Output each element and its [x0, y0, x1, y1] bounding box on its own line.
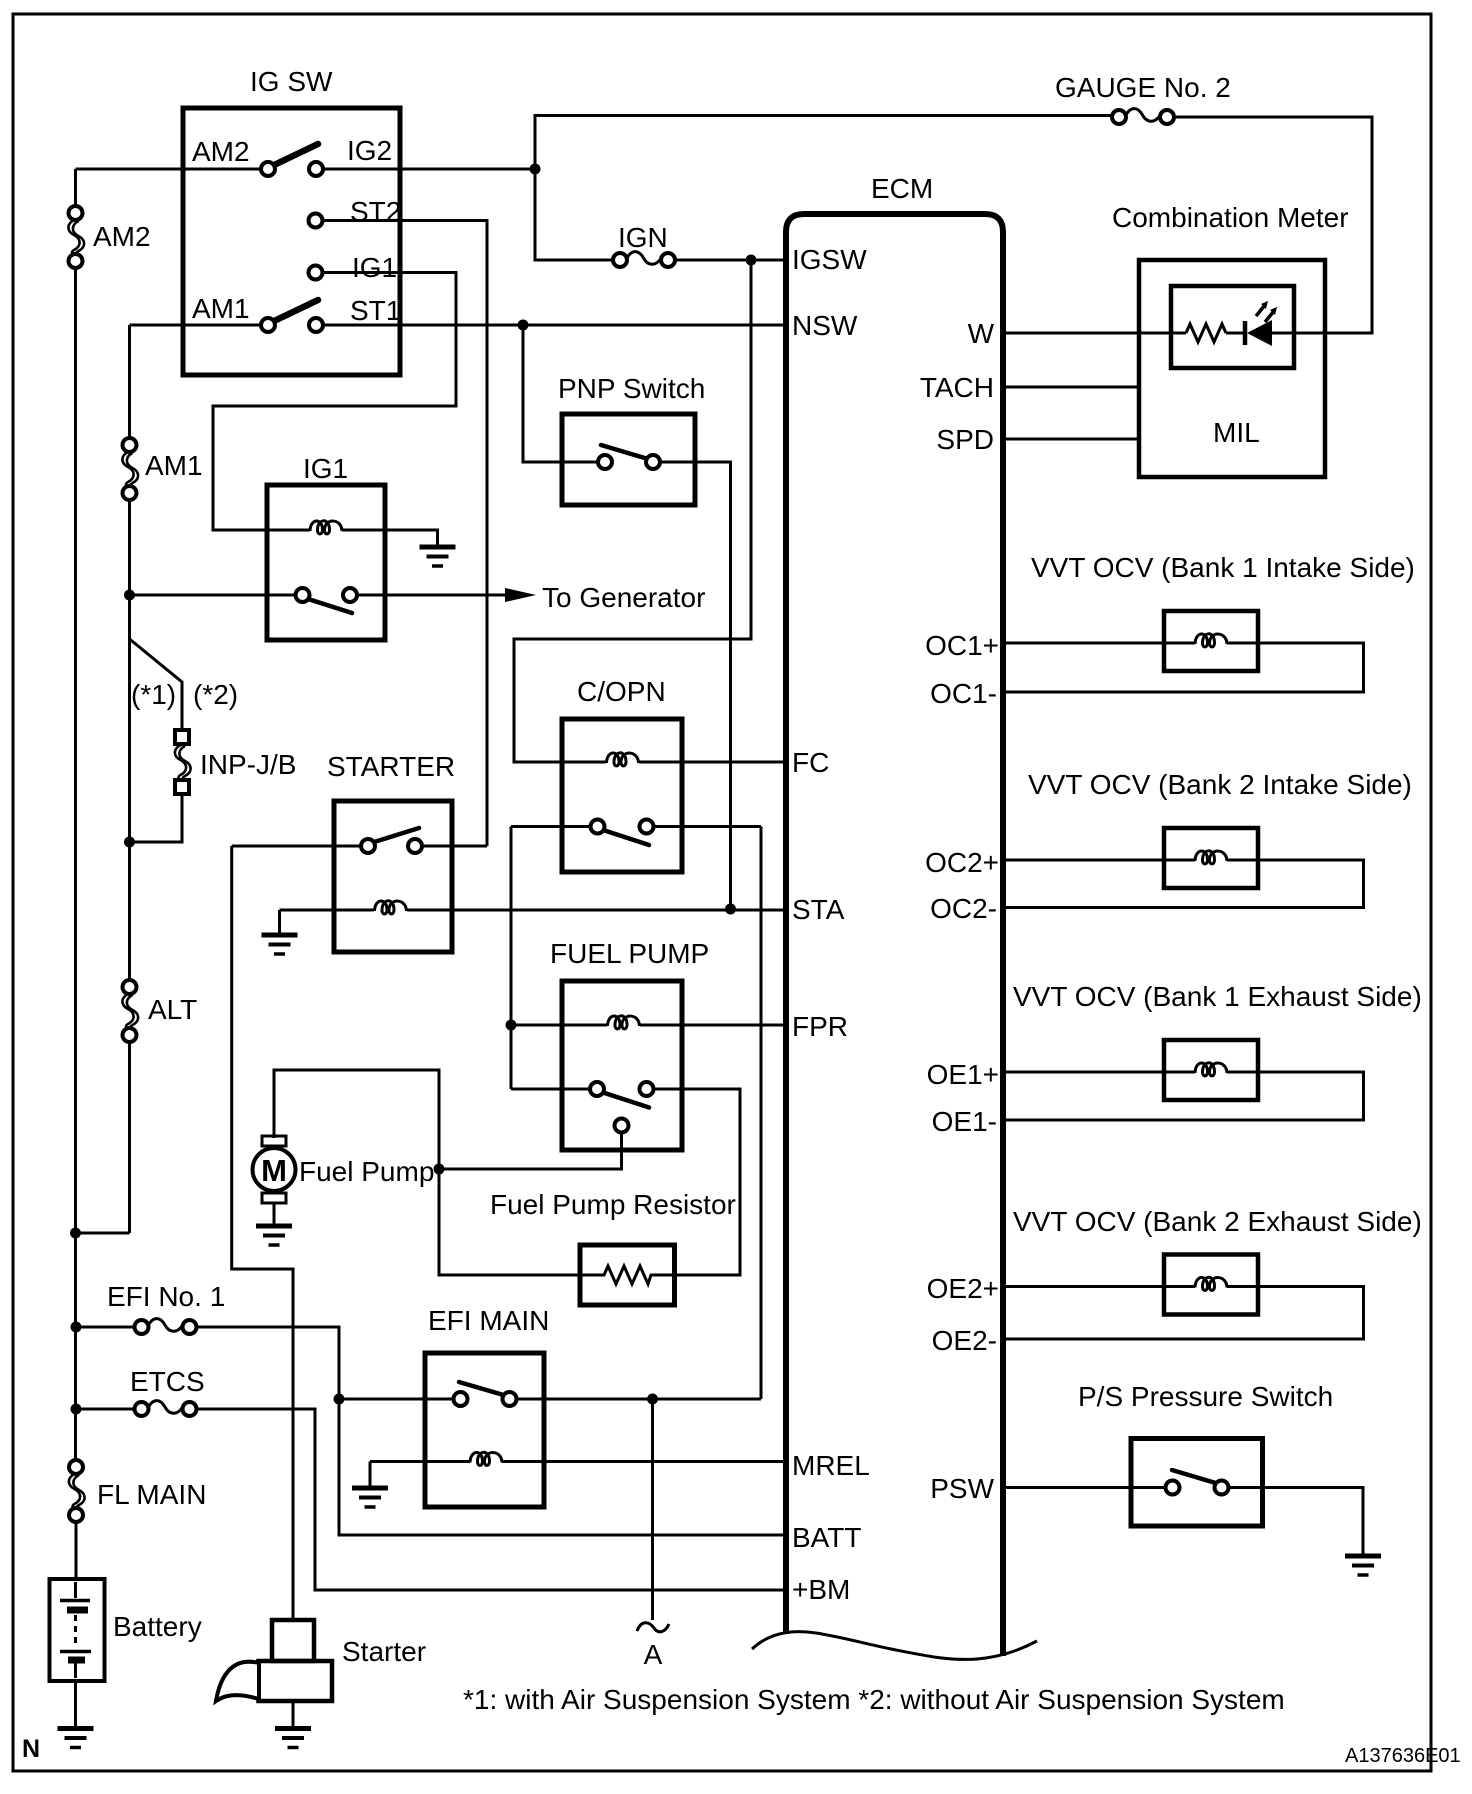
P/S switch blade [1172, 1470, 1219, 1484]
svg-text:AM1: AM1 [192, 293, 250, 324]
svg-text:VVT OCV (Bank 2 Exhaust Side): VVT OCV (Bank 2 Exhaust Side) [1013, 1206, 1422, 1237]
svg-text:W: W [968, 318, 995, 349]
relay FUEL PUMP coil leads [511, 1024, 786, 1027]
svg-text:SPD: SPD [936, 424, 994, 455]
wire OC2 loop [1003, 860, 1364, 908]
ground P/S switch [1345, 1556, 1381, 1575]
solenoid VVT OCV B2 exhaust coil [1195, 1277, 1227, 1290]
svg-text:AM2: AM2 [192, 136, 250, 167]
wire ST1 to ECM NSW [323, 324, 786, 327]
wire FUEL PUMP switch left [511, 1088, 590, 1091]
wire AM1 bus middle [128, 500, 131, 981]
solenoid VVT OCV B2 intake leads [1164, 859, 1258, 862]
node IGSW branch [746, 255, 757, 266]
wire TACH to meter [1003, 386, 1139, 389]
wire IG2 node down to IGN [535, 169, 613, 260]
ECM break wavy line [752, 1632, 1037, 1660]
svg-text:PSW: PSW [930, 1473, 994, 1504]
solenoid VVT OCV B1 exhaust leads [1164, 1071, 1258, 1074]
motor Fuel Pump body [253, 1148, 296, 1191]
Fuel Pump Resistor box [580, 1245, 675, 1305]
wire STARTER switch left [232, 845, 361, 848]
switch AM2-IG2 contacts [261, 162, 275, 176]
wire EFI No.1 bus tap [76, 1326, 135, 1329]
svg-text:N: N [22, 1735, 40, 1763]
PNP Switch box [562, 414, 695, 505]
svg-text:OC1-: OC1- [930, 678, 997, 709]
fuse IGN [613, 252, 675, 267]
relay FUEL PUMP switch blade [600, 1092, 649, 1108]
svg-text:Combination Meter: Combination Meter [1112, 202, 1349, 233]
relay C/OPN box [562, 719, 682, 872]
wire resistor to LED [1226, 332, 1245, 335]
wire AM2 pin to left bus [76, 168, 262, 171]
relay FUEL PUMP lower contact [615, 1119, 629, 1133]
relay IG1 coil [310, 521, 342, 534]
relay C/OPN switch contacts [591, 820, 605, 834]
svg-text:Fuel Pump: Fuel Pump [299, 1156, 434, 1187]
wire ETCS to +BM [196, 1409, 786, 1590]
svg-text:IGSW: IGSW [792, 244, 867, 275]
relay STARTER box [334, 801, 452, 952]
IG SW box [183, 108, 400, 375]
svg-text:A: A [644, 1639, 663, 1670]
svg-text:AM2: AM2 [93, 221, 151, 252]
svg-text:GAUGE No. 2: GAUGE No. 2 [1055, 72, 1231, 103]
svg-text:OE1-: OE1- [932, 1106, 997, 1137]
wire AM1 pin to bus [130, 324, 262, 327]
svg-text:OE1+: OE1+ [927, 1059, 999, 1090]
fuse ETCS [135, 1401, 197, 1416]
svg-text:ETCS: ETCS [130, 1366, 205, 1397]
wire fuel pump motor ground stub [273, 1203, 276, 1224]
wire PSW [1003, 1486, 1131, 1489]
wire OE1+ [1003, 1071, 1164, 1074]
wire STARTER coil to ECM STA [407, 909, 786, 912]
relay C/OPN switch blade [600, 829, 649, 845]
wire SPD to meter [1003, 438, 1139, 441]
svg-text:To Generator: To Generator [542, 582, 705, 613]
svg-text:Battery: Battery [113, 1611, 202, 1642]
relay EFI MAIN coil [470, 1452, 502, 1465]
battery box [50, 1579, 105, 1681]
fuse INP-J/B (fusible link) [175, 730, 191, 794]
wire diagonal to INP-J/B [130, 639, 183, 730]
solenoid VVT OCV B1 exhaust coil [1195, 1063, 1227, 1076]
ground IG1 coil [420, 547, 456, 566]
node IG2/gauge [530, 164, 541, 175]
wire EFI MAIN switch right [517, 1398, 762, 1401]
svg-text:IG2: IG2 [347, 135, 392, 166]
svg-text:Fuel Pump Resistor: Fuel Pump Resistor [490, 1189, 736, 1220]
svg-text:IG SW: IG SW [250, 66, 333, 97]
svg-text:VVT OCV (Bank 2 Intake Side): VVT OCV (Bank 2 Intake Side) [1028, 769, 1412, 800]
PNP switch contacts [598, 455, 612, 469]
relay STARTER coil [375, 901, 407, 914]
switch AM1-ST1 contacts [261, 318, 275, 332]
svg-text:Starter: Starter [342, 1636, 426, 1667]
wire gauge riser [535, 116, 1111, 171]
wire IG2 to gauge node [323, 168, 535, 171]
relay C/OPN coil [607, 753, 639, 766]
fuse AM2 [68, 206, 84, 268]
svg-text:FC: FC [792, 747, 829, 778]
wire battery to ground [74, 1681, 77, 1726]
PNP switch blade [601, 445, 648, 459]
wire W to meter [1003, 332, 1139, 335]
node STA junction [725, 904, 736, 915]
node FUEL PUMP coil junction [506, 1020, 517, 1031]
wire LED out [1272, 332, 1325, 335]
wire OE2 loop [1003, 1287, 1364, 1340]
LED MIL [1245, 301, 1277, 346]
wire ST2 to starter column [323, 221, 488, 847]
svg-text:OE2+: OE2+ [927, 1273, 999, 1304]
wire STARTER coil left [280, 909, 375, 912]
svg-text:STARTER: STARTER [327, 751, 455, 782]
svg-text:INP-J/B: INP-J/B [200, 749, 296, 780]
relay IG1 box [267, 485, 385, 640]
svg-text:(*1): (*1) [131, 679, 176, 710]
wire EFI MAIN coil left [370, 1460, 470, 1463]
wire fuel pump resistor feed [439, 1169, 580, 1275]
node A branch [647, 1394, 658, 1405]
wire AM1 bus upper [128, 325, 131, 438]
relay STARTER switch blade [371, 828, 419, 843]
wire EFI MAIN ground stub [369, 1462, 372, 1487]
svg-text:STA: STA [792, 894, 845, 925]
arrow To Generator [505, 588, 536, 602]
wire AM1 bus lower [128, 1042, 131, 1233]
node NSW/PNP branch [518, 320, 529, 331]
svg-text:EFI No. 1: EFI No. 1 [107, 1281, 225, 1312]
wire C/OPN switch right [654, 825, 762, 828]
wire gauge to meter [1176, 117, 1372, 333]
fuse ALT (fusible link) [122, 980, 138, 1042]
fuse FL MAIN (fusible link) [69, 1460, 85, 1522]
node EFI MAIN switch left [334, 1394, 345, 1405]
wire bus join at bottom [76, 1232, 130, 1235]
svg-text:A137636E01: A137636E01 [1345, 1745, 1461, 1767]
solenoid VVT OCV B1 exhaust box [1164, 1040, 1258, 1100]
relay FUEL PUMP coil [608, 1016, 640, 1029]
relay EFI MAIN switch blade [459, 1382, 507, 1396]
wire FUEL PUMP lower contact down [439, 1133, 622, 1170]
wire EFI No.1 to BATT [196, 1327, 786, 1535]
wire OC1+ [1003, 642, 1164, 645]
svg-text:IG1: IG1 [303, 453, 348, 484]
ground EFI MAIN coil [352, 1488, 388, 1507]
svg-text:OC2-: OC2- [930, 893, 997, 924]
solenoid VVT OCV B2 exhaust box [1164, 1255, 1258, 1315]
wire left bus upper [74, 169, 77, 206]
wire IGSW branch down to C/OPN feed [514, 260, 751, 762]
svg-text:FUEL PUMP: FUEL PUMP [550, 938, 709, 969]
switch AM1-ST1 blade [272, 300, 318, 322]
wire OE2+ [1003, 1285, 1164, 1288]
motor Fuel Pump terminals [262, 1136, 286, 1146]
ground fuel pump motor [256, 1226, 292, 1245]
IG SW contact IG1 [309, 266, 323, 280]
wire to generator arrow [357, 594, 506, 597]
wire P/S to ground [1263, 1488, 1364, 1555]
P/S switch wire [1131, 1486, 1263, 1489]
svg-text:FL MAIN: FL MAIN [97, 1479, 206, 1510]
wire left bus main [74, 269, 77, 1460]
IG SW contact ST2 [309, 214, 323, 228]
wire C/OPN left column down [510, 827, 513, 1090]
wire NSW branch to PNP switch [523, 325, 562, 462]
wire INP-J/B bottom to bus [130, 794, 183, 842]
relay STARTER switch contacts [361, 839, 375, 853]
MIL box [1171, 286, 1294, 368]
svg-text:FPR: FPR [792, 1011, 848, 1042]
resistor element [580, 1266, 675, 1284]
solenoid VVT OCV B2 intake coil [1195, 851, 1227, 864]
wire FUEL PUMP switch right loop to resistor [654, 1089, 741, 1275]
wire IG1 pin feed [213, 273, 456, 531]
P/S switch contacts [1166, 1481, 1180, 1495]
switch AM2-IG2 blade [272, 144, 318, 166]
wire IGN to ECM IGSW [675, 259, 786, 262]
wire ETCS bus tap [76, 1408, 135, 1411]
svg-text:MREL: MREL [792, 1450, 870, 1481]
relay EFI MAIN box [425, 1353, 544, 1507]
ground starter [275, 1729, 311, 1748]
resistor MIL [1186, 324, 1226, 342]
wire node A column [651, 1399, 654, 1620]
node ETCS tap [71, 1404, 82, 1415]
relay EFI MAIN switch contacts [454, 1392, 468, 1406]
ECM body [786, 214, 1003, 1656]
relay C/OPN coil leads [562, 761, 786, 764]
svg-text:+BM: +BM [792, 1574, 850, 1605]
svg-text:TACH: TACH [920, 372, 994, 403]
solenoid VVT OCV B1 intake coil [1195, 634, 1227, 647]
svg-text:P/S Pressure Switch: P/S Pressure Switch [1078, 1381, 1333, 1412]
wire PNP to STA column [695, 462, 731, 909]
fuse AM1 [122, 438, 138, 500]
node EFI No.1 tap [71, 1322, 82, 1333]
svg-text:*1: with Air Suspension System: *1: with Air Suspension System *2: witho… [463, 1684, 1285, 1715]
svg-text:MIL: MIL [1213, 417, 1260, 448]
wire EFI MAIN switch left [339, 1398, 454, 1401]
wire EFI MAIN coil to MREL [502, 1460, 786, 1463]
fuse GAUGE No. 2 [1112, 109, 1174, 124]
wire starter to ground [292, 1701, 295, 1726]
node fuel pump branch [434, 1164, 445, 1175]
wire fuel pump top loop [274, 1070, 439, 1169]
wire FL MAIN to battery [75, 1522, 78, 1579]
svg-text:BATT: BATT [792, 1522, 861, 1553]
Combination Meter box [1139, 260, 1325, 477]
starter motor symbol [216, 1620, 332, 1701]
node A break symbol [637, 1623, 669, 1632]
wire C/OPN right column down [760, 827, 763, 1400]
relay FUEL PUMP switch contacts [590, 1082, 604, 1096]
P/S Pressure Switch box [1131, 1439, 1263, 1527]
svg-text:EFI MAIN: EFI MAIN [428, 1305, 549, 1336]
ground STARTER coil [262, 935, 298, 954]
svg-text:ECM: ECM [871, 173, 933, 204]
wire STARTER switch right to ST2 column [422, 845, 487, 848]
node bus join [70, 1228, 81, 1239]
svg-text:ST2: ST2 [350, 196, 401, 227]
svg-text:VVT OCV (Bank 1 Intake Side): VVT OCV (Bank 1 Intake Side) [1031, 552, 1415, 583]
relay FUEL PUMP box [562, 981, 682, 1150]
relay IG1 switch blade [305, 598, 352, 613]
node INP-J/B rejoin [124, 837, 135, 848]
solenoid VVT OCV B1 intake box [1164, 611, 1258, 671]
wire OE1 loop [1003, 1072, 1364, 1120]
fuse EFI No. 1 [135, 1319, 197, 1334]
svg-text:C/OPN: C/OPN [577, 676, 666, 707]
wire STARTER coil ground stub [278, 910, 281, 933]
svg-text:OC2+: OC2+ [925, 847, 999, 878]
ground battery [58, 1729, 94, 1748]
relay IG1 coil lead [267, 529, 310, 532]
PNP switch wire [562, 461, 695, 464]
wire starter feed down [232, 846, 293, 1620]
svg-text:ALT: ALT [148, 994, 197, 1025]
wire C/OPN switch left [511, 825, 591, 828]
relay IG1 coil lead right [342, 530, 438, 545]
relay IG1 switch contacts [296, 588, 310, 602]
svg-text:AM1: AM1 [145, 450, 203, 481]
svg-text:M: M [261, 1153, 287, 1188]
svg-text:IG1: IG1 [352, 252, 397, 283]
svg-text:NSW: NSW [792, 310, 858, 341]
solenoid VVT OCV B2 exhaust leads [1164, 1285, 1258, 1288]
node IG1 switch junction [124, 590, 135, 601]
svg-text:PNP Switch: PNP Switch [558, 373, 705, 404]
svg-text:OC1+: OC1+ [925, 630, 999, 661]
solenoid VVT OCV B2 intake box [1164, 828, 1258, 888]
solenoid VVT OCV B1 intake leads [1164, 642, 1258, 645]
svg-text:OE2-: OE2- [932, 1325, 997, 1356]
svg-text:(*2): (*2) [193, 679, 238, 710]
battery plates [60, 1582, 91, 1678]
svg-text:ST1: ST1 [350, 295, 401, 326]
wire OC2+ [1003, 859, 1164, 862]
svg-text:IGN: IGN [618, 222, 668, 253]
svg-text:VVT OCV (Bank 1 Exhaust Side): VVT OCV (Bank 1 Exhaust Side) [1013, 981, 1422, 1012]
wire To-Generator row left [130, 594, 296, 597]
wire OC1 loop [1003, 643, 1364, 692]
wire into MIL [1139, 332, 1186, 335]
